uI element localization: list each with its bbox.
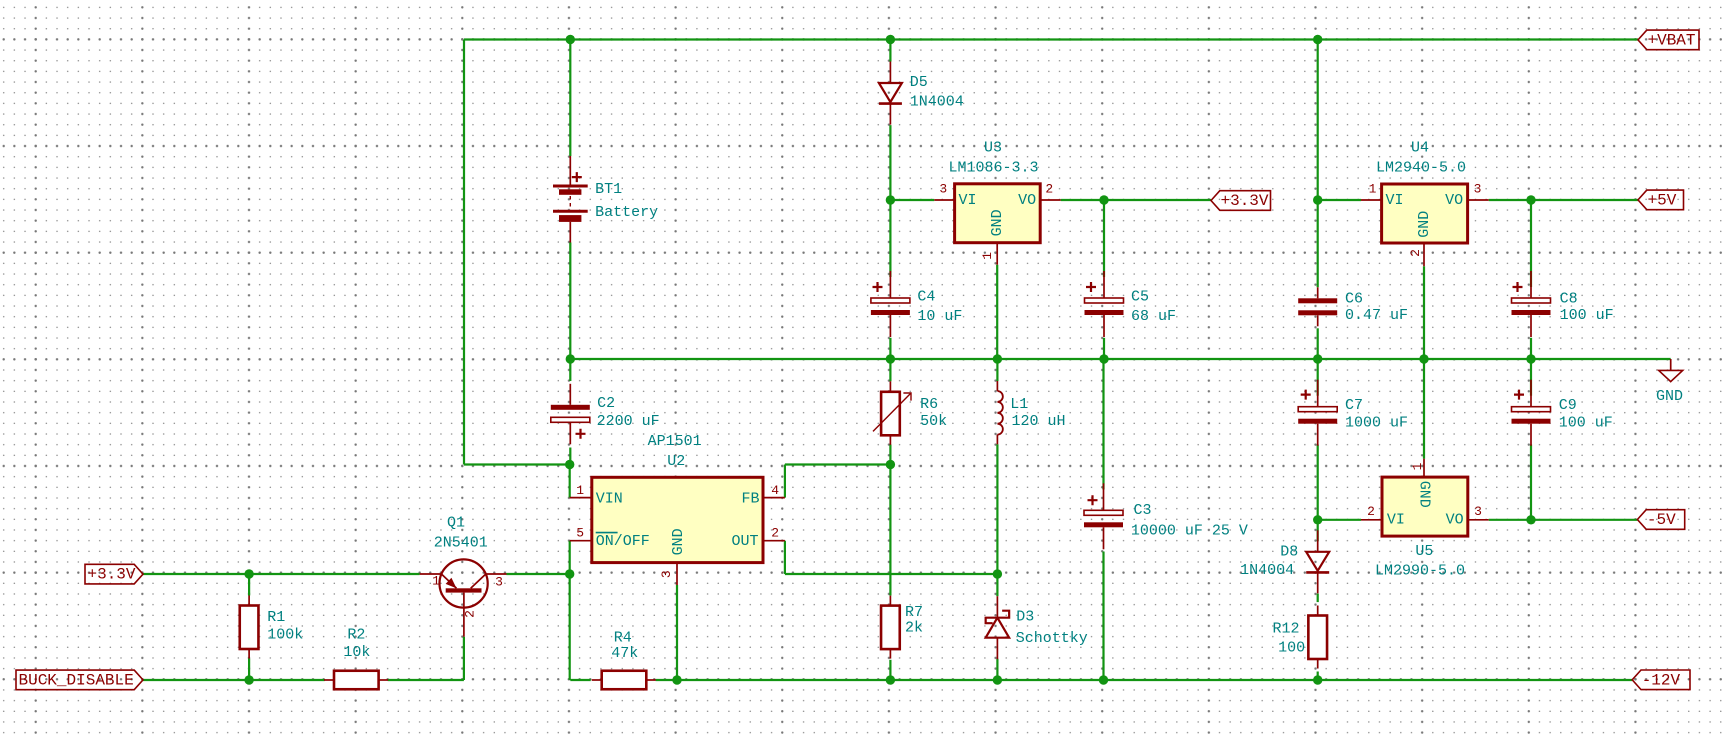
- svg-text:+VBAT: +VBAT: [1648, 31, 1696, 49]
- svg-text:2200 uF: 2200 uF: [597, 413, 660, 430]
- net label +VBAT: [1638, 30, 1699, 50]
- diode D3: [986, 596, 1010, 659]
- wire GND rail to C2: [569, 359, 571, 381]
- wire top rail to U4 VI: [1317, 40, 1319, 201]
- svg-text:120 uH: 120 uH: [1012, 413, 1066, 430]
- svg-text:VI: VI: [959, 192, 977, 209]
- node top rail / BT1 junction: [566, 35, 575, 44]
- wire left VBAT drop: [463, 40, 465, 465]
- svg-text:2N5401: 2N5401: [434, 535, 488, 552]
- svg-text:0.47 uF: 0.47 uF: [1345, 307, 1408, 324]
- wire C2 to VIN junction: [569, 448, 571, 465]
- wire D3 to bottom rail: [996, 659, 998, 680]
- capacitor C7: [1298, 380, 1337, 446]
- wire +3.3V label to Q1: [143, 573, 420, 575]
- svg-text:Schottky: Schottky: [1016, 630, 1088, 647]
- node GND rail / C6-C7 junction: [1313, 354, 1322, 363]
- svg-text:1: 1: [1369, 182, 1377, 197]
- svg-text:2: 2: [1045, 182, 1053, 197]
- node U5 VO / C9 junction: [1526, 515, 1535, 524]
- wire GND rail to U5 GND pin: [1423, 359, 1425, 459]
- pin 1 of U4: [1361, 199, 1382, 201]
- svg-text:OUT: OUT: [731, 533, 758, 550]
- svg-text:3: 3: [939, 182, 947, 197]
- wire to U2 VIN junction: [464, 463, 570, 465]
- wire GND rail: [570, 358, 1670, 360]
- node GND rail / C5-C3 junction: [1099, 354, 1108, 363]
- svg-text:D8: D8: [1280, 543, 1298, 560]
- svg-text:1N4004: 1N4004: [1240, 562, 1294, 579]
- wire U5 VO to -5V label: [1489, 519, 1638, 521]
- wire junction down to C4: [889, 200, 891, 277]
- pin 2 of U3: [1040, 199, 1061, 201]
- node -12V rail / D3 junction: [993, 675, 1002, 684]
- wire bottom -12V rail: [656, 679, 1633, 681]
- svg-text:VI: VI: [1386, 192, 1404, 209]
- resistor R7: [881, 596, 900, 659]
- wire +3.3V net to C5: [1103, 200, 1105, 277]
- node Q1 collector / ON-OFF junction: [565, 569, 574, 578]
- pin 5 of U2: [570, 540, 592, 542]
- wire R6 to FB junction: [889, 445, 891, 465]
- wire C4 to GND rail: [889, 338, 891, 359]
- svg-text:C4: C4: [917, 289, 935, 306]
- wire ON/OFF to Q1 junction: [569, 541, 571, 574]
- svg-text:10000 uF 25 V: 10000 uF 25 V: [1131, 522, 1248, 539]
- net label BUCK_DISABLE: [16, 670, 143, 690]
- node -12V rail / R12 junction: [1313, 675, 1322, 684]
- svg-text:2k: 2k: [905, 620, 923, 637]
- svg-text:100k: 100k: [267, 626, 303, 643]
- svg-text:AP1501: AP1501: [648, 433, 702, 450]
- node GND rail / C8-C9 junction: [1526, 354, 1535, 363]
- svg-text:U3: U3: [984, 140, 1002, 157]
- wire GND rail to C9: [1530, 359, 1532, 396]
- svg-text:+5V: +5V: [1648, 191, 1677, 209]
- svg-text:GND: GND: [1656, 388, 1683, 405]
- svg-text:C3: C3: [1134, 502, 1152, 519]
- svg-text:U5: U5: [1415, 543, 1433, 560]
- node BUCK_DISABLE / R1 junction: [244, 675, 253, 684]
- svg-text:68 uF: 68 uF: [1131, 308, 1176, 325]
- wire C5 to GND rail: [1103, 338, 1105, 359]
- wire junction down to R1: [248, 574, 250, 596]
- wire Q1 collector to junction: [507, 573, 570, 575]
- svg-text:1000 uF: 1000 uF: [1345, 415, 1408, 432]
- wire junction down to C6: [1317, 200, 1319, 287]
- wire Q1 junction down to rail corner: [569, 574, 571, 680]
- svg-text:LM2940-5.0: LM2940-5.0: [1376, 160, 1466, 177]
- svg-text:R6: R6: [920, 396, 938, 413]
- wire corner to R4: [570, 679, 590, 681]
- node VIN junction: [565, 460, 574, 469]
- pin 2 of U4: [1423, 243, 1425, 266]
- wire C9 to U5 VO junction: [1530, 445, 1532, 520]
- regulator U2 body: [592, 477, 763, 562]
- svg-text:D3: D3: [1016, 609, 1034, 626]
- resistor R2: [324, 671, 388, 690]
- diode D8: [1306, 530, 1329, 593]
- wire U4 VO to +5V label: [1489, 199, 1638, 201]
- svg-text:C8: C8: [1560, 291, 1578, 308]
- wire U3 VO to +3.3V label: [1061, 199, 1211, 201]
- pin 2 of U2: [763, 540, 785, 542]
- node GND rail / U4-U5 GND junction: [1419, 354, 1428, 363]
- svg-text:3: 3: [495, 574, 503, 589]
- wire D8 to R12: [1317, 594, 1319, 603]
- svg-text:2: 2: [1367, 504, 1375, 519]
- wire junction to U5 pin 2: [1318, 519, 1361, 521]
- svg-text:Q1: Q1: [447, 515, 465, 532]
- node FB junction: [886, 460, 895, 469]
- wire junction down to D8: [1317, 520, 1319, 542]
- inductor L1: [997, 381, 1002, 444]
- svg-text:VO: VO: [1446, 512, 1464, 529]
- svg-text:47k: 47k: [611, 645, 638, 662]
- node GND rail / L1 junction: [993, 354, 1002, 363]
- ground: [1659, 359, 1683, 382]
- wire GND rail to C3: [1102, 359, 1104, 490]
- resistor R1: [240, 596, 259, 659]
- svg-text:LM2990-5.0: LM2990-5.0: [1375, 562, 1465, 579]
- wire top rail to D5: [889, 40, 891, 62]
- svg-text:1N4004: 1N4004: [910, 93, 964, 110]
- pin 3 of U2: [676, 563, 678, 585]
- svg-text:-5V: -5V: [1647, 511, 1676, 529]
- wire U2 GND pin to bottom rail: [676, 585, 678, 680]
- capacitor C6: [1298, 287, 1337, 326]
- capacitor C4: [871, 271, 910, 337]
- svg-text:1: 1: [432, 573, 440, 588]
- node GND rail / C4-R6 junction: [886, 354, 895, 363]
- svg-text:Battery: Battery: [595, 204, 658, 221]
- svg-text:VO: VO: [1018, 192, 1036, 209]
- svg-text:L1: L1: [1010, 396, 1028, 413]
- svg-text:3: 3: [1474, 182, 1482, 197]
- wire C3 to bottom rail: [1102, 552, 1104, 681]
- svg-text:BUCK_DISABLE: BUCK_DISABLE: [19, 671, 134, 689]
- wire OUT stub drop: [784, 541, 786, 574]
- pin 2 of U5: [1361, 519, 1382, 521]
- svg-text:U4: U4: [1411, 140, 1429, 157]
- svg-text:R1: R1: [267, 609, 285, 626]
- wire R7 to bottom rail: [889, 660, 891, 680]
- node +3.3V / R1 junction: [244, 569, 253, 578]
- svg-text:C6: C6: [1345, 291, 1363, 308]
- wire L1 to OUT junction: [996, 444, 998, 574]
- wire FB junction to R7: [889, 465, 891, 596]
- wire Q1 base riser: [463, 637, 465, 680]
- diode D5: [879, 62, 902, 125]
- wire C7 to U5 VI junction: [1317, 445, 1319, 520]
- capacitor C8: [1512, 271, 1551, 337]
- wire D5 to U3 VI junction: [889, 125, 891, 200]
- svg-text:U2: U2: [667, 453, 685, 470]
- svg-text:2: 2: [463, 610, 478, 618]
- pin 3 of U4: [1468, 199, 1489, 201]
- resistor R12: [1308, 606, 1327, 669]
- wire GND rail to L1: [996, 359, 998, 381]
- wire C6 to GND rail: [1317, 328, 1319, 359]
- wire FB stub riser: [784, 465, 786, 498]
- wire GND rail to C7: [1317, 359, 1319, 396]
- svg-text:R2: R2: [347, 626, 365, 643]
- svg-text:2: 2: [1408, 249, 1423, 257]
- transistor Q1: [420, 559, 507, 636]
- capacitor C5: [1085, 271, 1124, 337]
- wire FB row: [785, 463, 891, 465]
- net label +3.3V: [1211, 191, 1271, 211]
- pin 1 of U3: [996, 243, 998, 265]
- wire BT1 bottom to GND rail: [569, 243, 571, 360]
- wire C8 to GND rail: [1530, 338, 1532, 359]
- svg-text:2: 2: [771, 526, 779, 541]
- wire junction to U3 pin 3: [890, 199, 934, 201]
- svg-text:VI: VI: [1387, 512, 1405, 529]
- wire R1 to BUCK_DISABLE rail: [248, 659, 250, 681]
- wire +VBAT top rail: [464, 38, 1638, 40]
- svg-text:1: 1: [1410, 462, 1425, 470]
- node GND rail / C2 junction: [566, 354, 575, 363]
- capacitor C3: [1084, 483, 1123, 549]
- regulator U4 body: [1382, 184, 1468, 243]
- svg-text:3: 3: [659, 570, 674, 578]
- net label +5V: [1638, 190, 1684, 210]
- svg-text:R7: R7: [905, 604, 923, 621]
- wire BT1 top: [569, 40, 571, 157]
- wire BUCK_DISABLE label to R2: [143, 679, 325, 681]
- pin 3 of U5: [1468, 519, 1489, 521]
- pin 4 of U2: [763, 497, 785, 499]
- svg-text:100 uF: 100 uF: [1559, 415, 1613, 432]
- node +3.3V / C5 junction: [1099, 195, 1108, 204]
- node -12V rail / R7 junction: [886, 675, 895, 684]
- net label -12V: [1632, 670, 1690, 690]
- node U3 VI junction: [886, 195, 895, 204]
- svg-text:VIN: VIN: [596, 491, 623, 508]
- node +5V / C8 junction: [1526, 195, 1535, 204]
- wire R2 to Q1 base corner: [388, 679, 464, 681]
- node OUT / L1 / D3 junction: [993, 569, 1002, 578]
- svg-text:1: 1: [576, 483, 584, 498]
- svg-text:R12: R12: [1273, 621, 1300, 638]
- net label -5V: [1637, 510, 1684, 530]
- node -12V rail / U2 GND junction: [672, 675, 681, 684]
- svg-text:C7: C7: [1345, 397, 1363, 414]
- svg-text:R4: R4: [614, 629, 632, 646]
- svg-text:C2: C2: [597, 395, 615, 412]
- svg-text:FB: FB: [741, 491, 759, 508]
- svg-text:D5: D5: [910, 74, 928, 91]
- svg-text:4: 4: [771, 483, 779, 498]
- svg-text:5: 5: [576, 526, 584, 541]
- svg-text:3: 3: [1474, 504, 1482, 519]
- svg-text:C5: C5: [1131, 289, 1149, 306]
- wire U4 GND pin to GND rail: [1423, 266, 1425, 359]
- svg-text:C9: C9: [1559, 397, 1577, 414]
- pin 1 of U5: [1423, 459, 1425, 477]
- node -12V rail / C3 junction: [1099, 675, 1108, 684]
- regulator U3 body: [955, 184, 1041, 243]
- svg-text:GND: GND: [989, 209, 1006, 236]
- node top rail / U4 junction: [1313, 35, 1322, 44]
- wire junction to U4 pin 1: [1318, 199, 1361, 201]
- svg-text:100: 100: [1278, 640, 1305, 657]
- svg-text:GND: GND: [1416, 211, 1433, 238]
- node U5 VI / D8 junction: [1313, 515, 1322, 524]
- svg-text:-12V: -12V: [1642, 671, 1681, 689]
- node top rail / D5 junction: [886, 35, 895, 44]
- wire R12 to bottom rail: [1317, 672, 1319, 681]
- svg-text:GND: GND: [670, 528, 687, 555]
- svg-text:+3.3V: +3.3V: [1221, 192, 1269, 210]
- wire U3 GND pin to GND rail: [996, 265, 998, 359]
- svg-text:1: 1: [980, 252, 995, 260]
- svg-text:ON/OFF: ON/OFF: [596, 533, 650, 550]
- battery BT1: [553, 156, 588, 243]
- pin 1 of U2: [570, 497, 592, 499]
- wire OUT junction to D3: [996, 574, 998, 596]
- wire +5V net to C8: [1530, 200, 1532, 287]
- pin 3 of U3: [934, 199, 954, 201]
- wire junction to VIN pin: [569, 465, 571, 498]
- capacitor C9: [1512, 380, 1551, 446]
- variable resistor R6: [873, 381, 911, 445]
- net label +3.3V left: [85, 564, 143, 584]
- svg-text:+3.3V: +3.3V: [88, 566, 136, 584]
- svg-text:50k: 50k: [920, 413, 947, 430]
- capacitor C2: [551, 384, 590, 445]
- svg-text:VO: VO: [1445, 192, 1463, 209]
- svg-text:GND: GND: [1416, 481, 1433, 508]
- svg-text:LM1086-3.3: LM1086-3.3: [949, 160, 1039, 177]
- node U4 VI / C6 junction: [1313, 195, 1322, 204]
- svg-text:100 uF: 100 uF: [1560, 307, 1614, 324]
- svg-text:BT1: BT1: [595, 181, 622, 198]
- svg-text:10 uF: 10 uF: [917, 308, 962, 325]
- regulator U5 body: [1382, 477, 1468, 536]
- wire OUT row to L1/D3 junction: [785, 573, 998, 575]
- svg-text:10k: 10k: [343, 644, 370, 661]
- resistor R4: [592, 671, 656, 690]
- wire GND rail to R6: [889, 359, 891, 381]
